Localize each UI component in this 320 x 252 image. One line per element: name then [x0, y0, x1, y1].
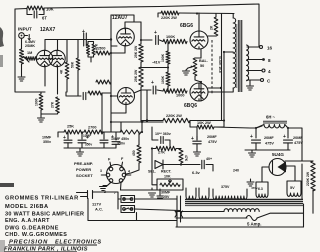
wire x111 to chain: [110, 113, 112, 132]
wire cap2 bottom: [81, 143, 83, 148]
wire filter ground bus: [245, 149, 290, 151]
resistor 220K 2W lower: [163, 118, 190, 122]
power transformer core: [185, 199, 303, 203]
pot 10K wiper: [169, 179, 172, 183]
svg-text:2SMK: 2SMK: [25, 44, 35, 48]
capacitor coupling lower .1: [153, 86, 156, 94]
svg-text:FRANKLIN PARK , ILLINOIS: FRANKLIN PARK , ILLINOIS: [4, 247, 88, 252]
transformer winding D box: [256, 182, 268, 197]
wire bias to pot: [152, 161, 157, 185]
wire fuse to HV right: [257, 213, 304, 218]
wire switch to connector: [135, 209, 181, 211]
wire bleeder top: [302, 160, 313, 162]
svg-text:1000: 1000: [176, 94, 184, 98]
dashed line speaker select: [211, 40, 213, 94]
wire connector pair right: [180, 196, 182, 222]
terminal 16 ohm: [260, 46, 263, 49]
wire bias cap right: [165, 140, 170, 146]
wire V1b cathode down: [57, 66, 59, 95]
wire V4 plate to transformer: [208, 91, 231, 93]
svg-text:40+: 40+: [206, 157, 212, 161]
wire rectifier plate feed: [285, 160, 302, 162]
junction dot 5: [200, 81, 202, 83]
junction V2b plate bus: [146, 119, 148, 121]
wire primary center tap: [224, 52, 233, 121]
wire 20MF to B bus: [214, 126, 224, 128]
wire bottom bus: [176, 226, 304, 228]
wire socket pin to ground: [103, 185, 107, 187]
wire B+ to 25K: [140, 22, 142, 44]
socket pin leads: [101, 162, 131, 190]
resistor grid stopper: [26, 57, 37, 61]
wire grid node upper: [167, 42, 169, 52]
svg-text:RECT.: RECT.: [161, 170, 172, 174]
svg-text:1M: 1M: [27, 51, 32, 55]
resistor grid 1000 lower: [163, 89, 187, 93]
wire cathode to pot: [195, 57, 201, 59]
svg-text:350v: 350v: [43, 140, 51, 144]
scan smudge bottom left 2: [0, 240, 5, 252]
resistor 25K 2W lower: [139, 67, 143, 87]
potentiometer arrowhead: [24, 57, 27, 60]
wire primary left lead: [176, 211, 224, 213]
wire bias node: [167, 64, 169, 72]
wire cathode node: [40, 92, 42, 94]
wire 25K junction: [140, 62, 142, 67]
resistor cathode bypass 27K: [56, 97, 60, 113]
svg-text:10K: 10K: [46, 7, 54, 12]
wire PI grid box: [111, 15, 134, 22]
junction dot 2: [140, 39, 142, 41]
resistor 10K bias pot: [160, 183, 180, 186]
wire cap2 lead: [81, 132, 83, 139]
terminal 4 ohm: [262, 69, 265, 72]
svg-text:47K: 47K: [184, 155, 188, 162]
svg-text:POWER: POWER: [76, 167, 91, 172]
wire plate load drop: [90, 57, 92, 62]
resistor 50K: [76, 58, 80, 70]
junction dot 8: [167, 66, 169, 68]
wire rect to choke: [288, 128, 302, 161]
svg-text:+: +: [191, 136, 194, 142]
wire B+ from caps: [214, 121, 224, 128]
svg-text:+: +: [283, 134, 286, 140]
wire divider: [66, 92, 81, 96]
svg-text:CHD. W.G.GROMMES: CHD. W.G.GROMMES: [5, 232, 67, 238]
wire cap4 bottom: [108, 144, 116, 148]
svg-text:220K 2W: 220K 2W: [166, 114, 182, 118]
junction dot 6: [223, 51, 225, 53]
wire V1 plate bus: [45, 40, 111, 51]
wire bias line right: [181, 164, 200, 166]
wire 50K down: [77, 70, 79, 96]
transformer winding 5V box: [287, 181, 301, 196]
wire cap1 bottom: [67, 143, 69, 148]
resistor divider 1500: [88, 91, 102, 95]
junction dot 11: [151, 147, 153, 149]
junction dot 13: [255, 127, 257, 129]
resistor cathode 1000: [39, 94, 43, 110]
ground main filter: [249, 153, 256, 157]
wire plug to boxes: [93, 192, 118, 209]
wire divider mid: [102, 92, 111, 94]
transformer heater winding B: [199, 188, 209, 199]
resistor balance pot 50: [193, 58, 197, 76]
svg-text:+: +: [86, 135, 89, 141]
svg-text:10** 360v: 10** 360v: [155, 132, 171, 136]
tube V3 output 6BG6: [190, 31, 208, 49]
wire filter cap bus: [64, 147, 108, 149]
junction screen lower: [220, 87, 222, 89]
wire plug bottom: [87, 199, 89, 221]
resistor 25K chain: [64, 130, 83, 134]
wire choke right: [285, 125, 288, 139]
inductor output transformer secondary: [247, 45, 249, 81]
wire cap b bottom: [287, 143, 289, 150]
svg-text:6T: 6T: [42, 16, 47, 21]
svg-text:1000: 1000: [35, 98, 39, 106]
svg-text:6H ~: 6H ~: [266, 115, 276, 120]
svg-text:12AU7: 12AU7: [112, 15, 128, 21]
underline precision: [8, 244, 97, 246]
wire 450 top: [138, 132, 140, 145]
resistor plate load 220K: [87, 44, 90, 55]
svg-text:SOCKET: SOCKET: [76, 173, 93, 178]
wire cap4 lead: [115, 132, 117, 140]
wire 220K lower right: [190, 120, 224, 122]
resistor 10K feedback: [27, 6, 44, 10]
wire plate loads top: [88, 42, 94, 45]
scan smudge left 2: [0, 55, 3, 67]
wire bus to ground: [79, 148, 81, 151]
AC plug: [77, 191, 93, 199]
resistor 2700 b: [120, 130, 141, 134]
capacitor 40MF bias: [202, 160, 204, 168]
core output transformer: [239, 20, 242, 92]
wire V2b plate drop: [146, 90, 148, 121]
wire divider drop: [101, 93, 103, 132]
resistor volume control 1MEG: [20, 49, 24, 64]
resistor screen upper: [214, 17, 218, 36]
ground balance: [183, 71, 190, 75]
input jack J1: [19, 33, 25, 39]
wire PI grid box left: [111, 15, 117, 46]
wire cap to grid resistor: [160, 40, 164, 42]
svg-text:25K: 25K: [67, 125, 74, 129]
svg-text:375V: 375V: [221, 185, 230, 189]
wire 25K bottom down: [140, 87, 142, 121]
wire cap3 bottom: [103, 143, 105, 148]
socket preamp power: [107, 165, 126, 184]
svg-text:5V: 5V: [290, 186, 295, 190]
wire V4 screen: [208, 87, 221, 89]
wire HV ct stub: [250, 179, 252, 181]
resistor 25K 2W upper: [139, 44, 143, 62]
wire feed fuse box: [118, 198, 121, 200]
wire bleeder bottom: [312, 190, 314, 213]
svg-text:8: 8: [268, 58, 271, 63]
svg-text:4: 4: [268, 69, 271, 74]
wire tap 4: [247, 70, 262, 72]
resistor 100K vertical upper: [166, 51, 170, 64]
wire cap c top lead: [196, 127, 198, 140]
wire feedback top bus: [15, 8, 27, 11]
diode selenium rectifier: [155, 160, 163, 169]
wire 47K to line: [180, 163, 182, 165]
svg-text:1500: 1500: [97, 47, 105, 51]
wire V2b grid left: [111, 82, 118, 96]
wire chain mid: [103, 131, 120, 133]
svg-text:+: +: [111, 135, 114, 141]
capacitor filter 10MF c: [100, 140, 108, 143]
junction dot 7: [196, 12, 198, 14]
capacitor filter 10MF b: [78, 140, 86, 143]
svg-text:2K: 2K: [210, 25, 214, 30]
inductor output transformer primary: [233, 18, 236, 88]
ground cap c: [194, 152, 201, 156]
svg-text:A.C.: A.C.: [95, 207, 103, 212]
transformer heater winding C: [213, 189, 247, 199]
svg-text:470v: 470v: [251, 186, 258, 190]
potentiometer 10K bias box: [157, 179, 183, 190]
svg-text:25K 2W: 25K 2W: [134, 45, 138, 58]
svg-text:25K 2W: 25K 2W: [134, 69, 138, 82]
wire B+ bus: [111, 121, 142, 123]
fuse symbol inside: [124, 198, 132, 200]
wire connector pair left: [176, 196, 178, 227]
junction dot 3: [110, 95, 112, 97]
svg-text:16: 16: [267, 46, 273, 51]
ground input: [18, 77, 25, 81]
tube V1b triode: [49, 50, 65, 66]
switch box: [121, 206, 135, 213]
svg-text:4K: 4K: [60, 69, 64, 74]
wire bias line right 2: [206, 165, 213, 172]
wire bias tap: [152, 127, 158, 140]
capacitor 20MF 475V b: [284, 140, 293, 143]
wire choke left: [256, 126, 262, 128]
ground filter caps: [77, 152, 84, 156]
svg-text:12AX7: 12AX7: [40, 27, 56, 33]
wire socket to 30MF: [121, 189, 161, 191]
capacitor bias .02: [161, 137, 163, 144]
svg-text:100K: 100K: [166, 35, 175, 39]
wire plate to transformer: [179, 12, 234, 15]
wire 450 bottom: [126, 163, 139, 174]
svg-text:BAL.: BAL.: [199, 59, 208, 63]
wire cap c bottom: [196, 144, 198, 151]
svg-text:27K: 27K: [51, 101, 55, 108]
tube V2b phase inverter: [118, 88, 135, 105]
wire 4K bottom: [66, 79, 68, 92]
choke core: [263, 121, 287, 123]
input jack tip: [21, 35, 23, 37]
wire x111 down: [110, 40, 112, 83]
resistor 1500 b: [96, 51, 110, 55]
wire 5U4 left lead: [262, 167, 269, 182]
resistor 220K 2W screen upper: [161, 11, 179, 15]
wire gnd bus stub: [251, 150, 253, 152]
fuse 5 Amp: [246, 216, 257, 221]
wire V2b plate right: [134, 90, 151, 93]
wire screen resistor drop: [215, 14, 217, 18]
wire cap to grid resistor lower: [157, 90, 163, 91]
scan smudge bottom left: [0, 183, 14, 187]
connector marks: [175, 211, 183, 217]
wire pot bottom: [195, 76, 201, 82]
capacitor filter 10MF d: [112, 142, 120, 145]
svg-text:27K: 27K: [158, 151, 165, 155]
wire hv right: [301, 164, 303, 199]
potentiometer wiper arrow: [24, 57, 30, 63]
svg-text:SLIDE 16-8: SLIDE 16-8: [218, 56, 222, 73]
capacitor filter 10MF a: [64, 140, 72, 143]
junction dot 1: [110, 52, 112, 54]
fuse holder box: [121, 196, 135, 203]
wire AC gnd stub: [151, 188, 153, 190]
wire B+ bus 2: [142, 121, 163, 123]
junction dot 10: [110, 121, 112, 123]
wire common to ground: [249, 80, 251, 85]
wire chain right: [141, 122, 142, 132]
svg-text:20MF: 20MF: [264, 136, 274, 140]
wire stub x67: [66, 40, 68, 63]
wire jack to volume pot: [21, 38, 23, 49]
resistor 47K bias: [179, 149, 183, 164]
svg-text:+: +: [63, 135, 66, 141]
wire fuse to connector: [135, 198, 178, 200]
ground socket: [100, 187, 107, 191]
svg-text:240: 240: [233, 169, 239, 173]
svg-text:5U4G: 5U4G: [272, 152, 284, 157]
wire 10K to caps: [190, 121, 197, 128]
transformer heater winding A: [186, 188, 196, 199]
svg-text:ENG. A.A.HART: ENG. A.A.HART: [5, 218, 50, 224]
wire PI plate top: [125, 22, 141, 29]
wire switch drop: [136, 213, 138, 221]
wire V4 cathode: [200, 82, 202, 101]
ground speaker common: [247, 86, 254, 90]
wire V3 cathode: [200, 49, 202, 58]
svg-text:6BQ6: 6BQ6: [184, 103, 197, 109]
wire feedback cap branch: [27, 9, 32, 15]
capacitor 20MF 475V c: [193, 141, 201, 144]
wire V2b cathode: [111, 96, 126, 113]
svg-text:INPUT: INPUT: [18, 27, 32, 32]
resistor bleeder 220K 2W: [311, 161, 315, 191]
svg-text:10K 2W: 10K 2W: [197, 121, 211, 125]
svg-text:30MF: 30MF: [161, 191, 171, 195]
svg-text:3: 3: [100, 169, 102, 173]
svg-text:+: +: [82, 29, 85, 35]
svg-text:+: +: [250, 134, 253, 140]
underline franklin: [4, 251, 77, 252]
svg-text:GROMMES TRI-LINEAR: GROMMES TRI-LINEAR: [5, 196, 79, 202]
ground AC: [149, 193, 156, 197]
terminal C common: [261, 79, 264, 82]
capacitor coupling lower .02: [83, 92, 86, 99]
svg-text:+: +: [154, 30, 157, 36]
wire feedback left drop: [15, 9, 41, 92]
junction x111 grid: [110, 38, 112, 40]
svg-text:6.3: 6.3: [258, 187, 263, 191]
svg-text:10MF: 10MF: [42, 136, 52, 140]
wire PI cathode down: [124, 46, 126, 54]
capacitor coupling upper .1: [156, 36, 159, 45]
svg-text:20MF: 20MF: [207, 135, 217, 139]
tube V1a triode: [36, 50, 52, 66]
wire long bottom: [88, 220, 177, 222]
wire tap 16: [247, 46, 259, 48]
wire feedback cap branch right: [39, 8, 44, 15]
pot wiper arrowhead: [191, 66, 194, 69]
wire tap C: [247, 79, 260, 81]
wire V1b plate up: [57, 40, 59, 51]
wire B+ node right: [214, 127, 256, 138]
wire 1500 to PI: [110, 52, 125, 54]
junction dot 4: [167, 90, 169, 92]
wire to ground cathode: [40, 114, 42, 117]
ground cathode: [38, 118, 45, 122]
wire V3 plate: [198, 13, 200, 31]
wire PI plate to cap: [141, 39, 152, 41]
resistor 1500 upper: [96, 80, 111, 84]
scan smudge left: [0, 27, 4, 47]
wire V1a cathode down: [44, 66, 46, 87]
svg-text:100K: 100K: [161, 75, 165, 84]
wire cap a bottom: [255, 143, 257, 150]
resistor 27K bias: [156, 146, 176, 150]
tube V5 rectifier 5U4G: [269, 159, 286, 176]
junction B+: [141, 120, 144, 123]
wire wiper to ground: [186, 68, 188, 70]
wire fuse line left: [176, 217, 247, 219]
wire diode out: [163, 164, 181, 166]
wire screen supply drop: [221, 14, 223, 121]
wire 220K left stub: [158, 13, 161, 17]
wire tap 8: [247, 59, 262, 61]
wire screen to tube: [208, 35, 216, 37]
wire primary top lead: [232, 14, 234, 19]
wire primary bottom lead: [231, 88, 233, 92]
resistor grid 100K upper: [163, 39, 187, 43]
capacitor feedback: [34, 11, 37, 18]
wire pot bottom to ground: [21, 64, 23, 76]
svg-text:MODEL 2I6BA: MODEL 2I6BA: [5, 204, 49, 210]
junction dot 12: [180, 163, 182, 165]
terminal 8 ohm: [262, 58, 265, 61]
junction dot 15: [223, 119, 225, 121]
pot wiper balance: [188, 67, 193, 69]
svg-text:25V: 25V: [163, 195, 170, 199]
svg-text:2700: 2700: [88, 126, 96, 130]
svg-text:50: 50: [200, 64, 204, 68]
ground HV center tap: [247, 182, 254, 186]
svg-text:PRE-AMP.: PRE-AMP.: [74, 161, 93, 166]
svg-text:350v: 350v: [85, 143, 92, 147]
wire stub x78: [77, 40, 79, 59]
resistor 4K: [65, 62, 69, 79]
tube V4 output 6BQ6: [190, 83, 208, 101]
wire choke left lead: [256, 125, 264, 129]
wire 100K bottom: [167, 86, 169, 91]
capacitor 20MF 475V a: [252, 140, 261, 143]
svg-text:220K 2W: 220K 2W: [306, 171, 310, 186]
svg-text:100K: 100K: [161, 53, 165, 62]
capacitor coupling .02: [84, 33, 87, 46]
wire 5U4 right lead: [286, 166, 295, 181]
socket pin holes: [109, 167, 113, 171]
